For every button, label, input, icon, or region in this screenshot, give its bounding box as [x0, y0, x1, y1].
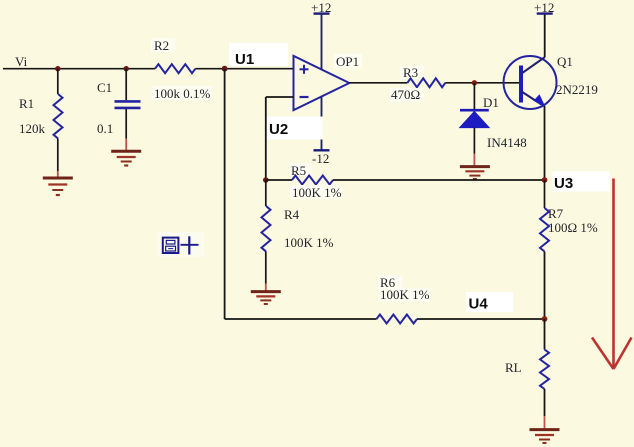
- svg-text:R5: R5: [291, 163, 306, 178]
- svg-text:2N2219: 2N2219: [556, 82, 598, 97]
- svg-text:IN4148: IN4148: [487, 135, 527, 150]
- svg-text:OP1: OP1: [336, 54, 359, 69]
- ground (C1): [111, 139, 141, 166]
- ground (R1): [43, 171, 73, 195]
- resistor R7: [540, 180, 598, 319]
- svg-text:100K 1%: 100K 1%: [292, 185, 342, 200]
- svg-text:Vi: Vi: [15, 54, 28, 69]
- ground (D1): [460, 154, 490, 180]
- svg-text:Q1: Q1: [557, 54, 573, 69]
- svg-text:R7: R7: [548, 206, 564, 221]
- resistor R4: [262, 180, 334, 284]
- junction at D1 tap: [472, 80, 477, 85]
- svg-text:U4: U4: [469, 296, 489, 313]
- capacitor C1: [97, 69, 141, 139]
- svg-text:R4: R4: [284, 207, 300, 222]
- power +12 (Q1 collector): [534, 0, 554, 57]
- resistor R5: [263, 163, 342, 200]
- svg-text:100K 1%: 100K 1%: [380, 287, 430, 302]
- node U4: [466, 292, 547, 322]
- resistor R2: [151, 38, 212, 101]
- wire: input net Vi from left edge to op-amp non-inverting input: [3, 68, 294, 70]
- wire: U1 feedback run down left side: [224, 69, 226, 319]
- ground (R4): [251, 284, 281, 305]
- junction at C1: [124, 66, 129, 71]
- wire: U2 vertical to R5/R4 node: [265, 97, 267, 180]
- node U3: [542, 172, 610, 193]
- resistor R6: [225, 275, 545, 324]
- svg-text:-12: -12: [312, 151, 329, 166]
- svg-text:470Ω: 470Ω: [391, 87, 420, 102]
- wire: inverting input stub: [266, 96, 294, 98]
- node U2: [267, 117, 323, 140]
- diode D1 IN4148: [460, 83, 527, 154]
- resistor RL: [505, 319, 549, 416]
- wire: Q1 emitter down to U3: [544, 106, 546, 180]
- svg-text:U3: U3: [554, 175, 573, 192]
- svg-text:100K 1%: 100K 1%: [284, 235, 334, 250]
- node U1: [222, 43, 288, 72]
- svg-text:0.1: 0.1: [97, 121, 113, 136]
- resistor R3: [390, 65, 445, 102]
- wire: R3 to transistor base: [445, 82, 519, 84]
- current arrow (red, pointing down): [592, 179, 632, 370]
- transistor Q1 2N2219: [504, 54, 598, 109]
- svg-text:120k: 120k: [19, 121, 46, 136]
- svg-text:R2: R2: [154, 38, 169, 53]
- power +12 (op-amp): [311, 0, 331, 70]
- svg-text:RL: RL: [505, 360, 522, 375]
- svg-text:U2: U2: [269, 121, 288, 138]
- power -12 (op-amp): [312, 97, 330, 166]
- svg-text:U1: U1: [235, 51, 254, 68]
- svg-text:R1: R1: [19, 96, 34, 111]
- svg-text:D1: D1: [483, 95, 499, 110]
- svg-text:C1: C1: [97, 80, 112, 95]
- wire: R5 to U3: [333, 179, 545, 181]
- junction at R1: [55, 66, 60, 71]
- svg-text:100k 0.1%: 100k 0.1%: [154, 86, 211, 101]
- wire: op-amp output to R3: [349, 82, 407, 84]
- ground (RL): [530, 416, 560, 443]
- svg-text:100Ω 1%: 100Ω 1%: [548, 220, 598, 235]
- op-amp OP1: [294, 54, 363, 110]
- caption 圖十 (figure ten, drawn strokes): [158, 232, 204, 257]
- resistor R1: [19, 69, 63, 171]
